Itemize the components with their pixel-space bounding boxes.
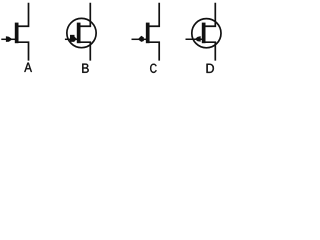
label A [24,63,32,72]
wire drain lead D [204,3,216,26]
wire source lead B [79,42,91,60]
gate arrow A (points right) [6,36,12,42]
envelope circle B [67,18,96,47]
wire gate lead B [65,38,77,40]
transistor C : p-channel JFET [132,3,160,61]
wire source lead D [204,42,216,60]
channel bar C [146,23,150,44]
label C [150,64,156,73]
wire drain lead C [148,3,160,26]
wire drain lead B [79,3,91,26]
wire gate lead A [1,38,15,40]
gate arrow B (points right) [70,35,75,42]
channel bar A [15,23,19,44]
wire gate lead C [132,38,147,40]
gate arrow D (points left) [195,36,201,42]
envelope circle D [192,19,221,48]
channel bar B [77,23,81,44]
label D [207,64,214,73]
wire gate lead D [186,38,203,40]
wire source lead A [17,42,29,60]
wire drain lead A [17,3,29,26]
label B [82,64,88,73]
channel bar D [202,23,206,44]
gate arrow C (points left) [138,36,144,42]
transistor A : n-channel JFET [1,3,28,61]
wire source lead C [148,42,160,60]
